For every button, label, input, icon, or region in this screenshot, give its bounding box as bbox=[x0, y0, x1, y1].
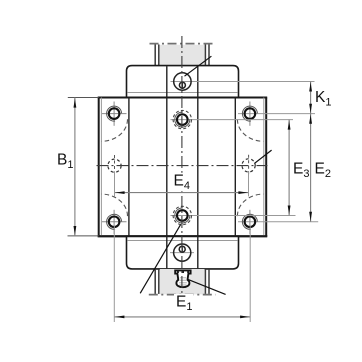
E4 dimension line bbox=[115, 192, 248, 194]
E3 arrow down bbox=[288, 206, 291, 216]
recess dashed arc bottom-left bbox=[102, 194, 128, 216]
rail top left edge lines bbox=[154, 45, 156, 66]
B1 dimension line bbox=[74, 98, 76, 237]
K1 E2 dimension line bbox=[310, 82, 312, 222]
body bottom edge redraw bbox=[98, 235, 268, 237]
E3 dimension line bbox=[288, 120, 290, 216]
rail bottom break line bbox=[149, 294, 216, 296]
K1 arrow up bbox=[309, 82, 312, 92]
end plate top parting line bbox=[127, 92, 237, 94]
mounting hole bottom-right bbox=[238, 210, 318, 234]
B1 arrow up bbox=[74, 98, 77, 108]
E2 arrow up bbox=[309, 114, 312, 124]
E1 arrow right bbox=[240, 316, 250, 319]
E1 label halo bbox=[174, 294, 194, 312]
body left edge bbox=[98, 98, 100, 237]
rail bottom surface fill bbox=[160, 269, 205, 294]
leader line to bottom-center hole bbox=[140, 225, 180, 294]
rail top break line bbox=[150, 43, 216, 45]
recess dashed arc top-right bbox=[237, 119, 263, 141]
E4 label halo bbox=[172, 173, 192, 191]
svg-text:E2: E2 bbox=[315, 161, 331, 181]
recess dashed arc top-left bbox=[102, 119, 128, 141]
horizontal centerline bbox=[97, 165, 268, 167]
body right edge bbox=[265, 98, 267, 237]
E4 arrow right bbox=[238, 191, 248, 194]
end plate bottom parting line bbox=[127, 240, 237, 242]
lube port circle bottom crosshair bbox=[170, 252, 194, 254]
grease nipple bbox=[175, 270, 190, 287]
E4 extension line left bbox=[114, 172, 116, 196]
main body fill bbox=[99, 98, 267, 237]
mounting hole bottom-left bbox=[102, 210, 127, 234]
B1 arrow down bbox=[74, 226, 77, 236]
lube port circle top bbox=[174, 73, 191, 90]
rail top right edge lines bbox=[204, 45, 206, 66]
leader line to top lube port bbox=[185, 56, 212, 76]
B1 extension line bottom bbox=[68, 235, 99, 237]
K1 arrow down bbox=[309, 104, 312, 114]
B1 extension line top bbox=[68, 97, 99, 99]
E1 dimension line bbox=[114, 316, 250, 318]
screw plug symbol bottom bbox=[179, 246, 185, 252]
E4 extension line right bbox=[248, 172, 250, 196]
svg-text:K1: K1 bbox=[315, 89, 331, 109]
screw plug symbol top bbox=[179, 82, 185, 88]
lube port circle bottom bbox=[174, 244, 191, 261]
raceway line right inner bbox=[197, 98, 199, 237]
mid hole left bbox=[108, 155, 121, 177]
E1 arrow left bbox=[115, 316, 125, 319]
K1 extension line from lube port center bbox=[171, 81, 315, 83]
rail bottom left edge lines bbox=[154, 269, 156, 294]
end plate bottom bbox=[127, 236, 239, 269]
recess dashed arc bottom-right bbox=[237, 194, 263, 216]
E1 extension line left bbox=[113, 226, 115, 322]
svg-text:E3: E3 bbox=[293, 161, 309, 181]
grease nipple knurl marks bbox=[177, 271, 179, 273]
grease nipple interior marks bbox=[180, 277, 186, 279]
mounting hole top-right bbox=[238, 102, 315, 126]
leader line to mid-right hole bbox=[254, 150, 271, 163]
E1 extension line right bbox=[249, 226, 251, 322]
end plate top inner vertical right bbox=[197, 66, 199, 97]
body left inner thin line bbox=[100, 98, 102, 237]
mounting hole top-left bbox=[102, 102, 127, 126]
raceway line right outer bbox=[234, 98, 236, 237]
end plate bottom inner vertical right bbox=[197, 236, 199, 268]
body top edge bbox=[98, 97, 268, 99]
body bottom edge bbox=[98, 235, 268, 237]
threaded hole top-center bbox=[171, 110, 294, 128]
E4 arrow left bbox=[115, 191, 125, 194]
E2 arrow down bbox=[309, 212, 312, 222]
vertical centerline bbox=[181, 36, 183, 297]
body right inner thin line bbox=[263, 98, 265, 237]
E3 arrow up bbox=[288, 120, 291, 130]
svg-text:B1: B1 bbox=[57, 152, 73, 172]
end plate top inner vertical left bbox=[166, 66, 168, 97]
leader line to grease nipple bbox=[188, 280, 225, 295]
mid hole right bbox=[242, 155, 255, 177]
end plate bottom inner vertical left bbox=[166, 236, 168, 268]
threaded hole bottom-center bbox=[171, 206, 296, 224]
raceway line left inner bbox=[166, 98, 168, 237]
rail bottom right edge lines bbox=[204, 269, 206, 294]
end plate top bbox=[127, 66, 239, 98]
rail top surface fill bbox=[160, 45, 205, 66]
raceway line left outer bbox=[128, 98, 130, 237]
